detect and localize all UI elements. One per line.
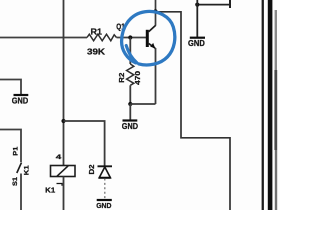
svg-text:4: 4 bbox=[56, 154, 62, 161]
node: junction dot relay/diode branch bbox=[61, 119, 65, 123]
switch S1 blade bbox=[17, 163, 22, 174]
wire: top-right corner into frame bbox=[229, 0, 231, 8]
wire: junction to emitter column bbox=[130, 103, 155, 105]
svg-text:P1: P1 bbox=[13, 146, 20, 155]
ground: GND top right bbox=[190, 37, 205, 39]
relay coil diagonal bbox=[57, 166, 68, 176]
svg-text:S1: S1 bbox=[12, 177, 19, 186]
wire: vertical from top edge to GND bbox=[196, 0, 198, 37]
collector diagonal bbox=[149, 25, 156, 32]
emitter arrowhead bbox=[150, 43, 155, 49]
emitter diagonal bbox=[149, 43, 156, 48]
node: junction dot base/R2 bbox=[128, 35, 132, 39]
wire: left horizontal to GND drop bbox=[0, 80, 21, 95]
node: junction dot collector bbox=[153, 9, 157, 13]
wire: diode anode down to GND (faint) bbox=[104, 179, 106, 199]
pin label 1 bbox=[57, 184, 63, 186]
svg-text:R2: R2 bbox=[119, 73, 126, 83]
triangle bbox=[99, 167, 110, 178]
scan artifact: outer gray streak bbox=[275, 10, 277, 70]
wire: relay coil feed from top edge bbox=[63, 0, 65, 166]
resistor R2 zigzag (vertical) bbox=[127, 64, 134, 85]
diode D2 bbox=[98, 166, 113, 178]
svg-text:39K: 39K bbox=[87, 47, 106, 57]
wire: R1 to Q1 base bbox=[117, 37, 147, 39]
cathode bar bbox=[98, 165, 113, 167]
wire: base feed horizontal from left edge to R1 bbox=[0, 37, 87, 39]
wire: left horizontal to switch bbox=[0, 130, 21, 163]
wire: branch dot to diode column bbox=[64, 121, 105, 166]
svg-text:D2: D2 bbox=[89, 164, 96, 174]
scan artifact: thin page line bbox=[262, 0, 264, 210]
svg-text:GND: GND bbox=[96, 201, 112, 210]
blue highlight circle around Q1 bbox=[122, 11, 175, 65]
relay coil K1 box bbox=[51, 166, 76, 177]
svg-text:470: 470 bbox=[135, 71, 142, 85]
svg-text:GND: GND bbox=[188, 38, 205, 48]
svg-text:K1: K1 bbox=[45, 187, 55, 194]
transistor Q1 bbox=[146, 25, 156, 48]
svg-text:GND: GND bbox=[122, 121, 138, 131]
svg-text:K1: K1 bbox=[23, 165, 30, 175]
ground: GND under R2 bbox=[129, 104, 131, 120]
resistor R1 zigzag bbox=[87, 34, 117, 41]
ground: GND left bbox=[14, 94, 29, 96]
ground: GND under D2 bbox=[97, 199, 112, 201]
wire: switch bottom to page bottom bbox=[20, 174, 22, 211]
wire: collector dot right then down right side bbox=[156, 12, 231, 210]
wire: collector vertical to top edge bbox=[155, 0, 157, 26]
base bar bbox=[146, 30, 149, 47]
node: junction dot R2/emitter bbox=[128, 102, 132, 106]
scan artifact: thick page band bbox=[268, 0, 273, 210]
blue circle tail stroke bbox=[126, 46, 137, 63]
node: junction dot top GND branch bbox=[195, 3, 199, 7]
svg-text:R1: R1 bbox=[91, 28, 103, 37]
wire: R2 bottom to junction bbox=[129, 85, 131, 104]
wire: base dot down to R2 bbox=[129, 38, 131, 65]
wire: emitter vertical bbox=[155, 48, 157, 104]
svg-text:GND: GND bbox=[12, 96, 28, 106]
wire: relay bottom to page bottom bbox=[63, 177, 65, 211]
